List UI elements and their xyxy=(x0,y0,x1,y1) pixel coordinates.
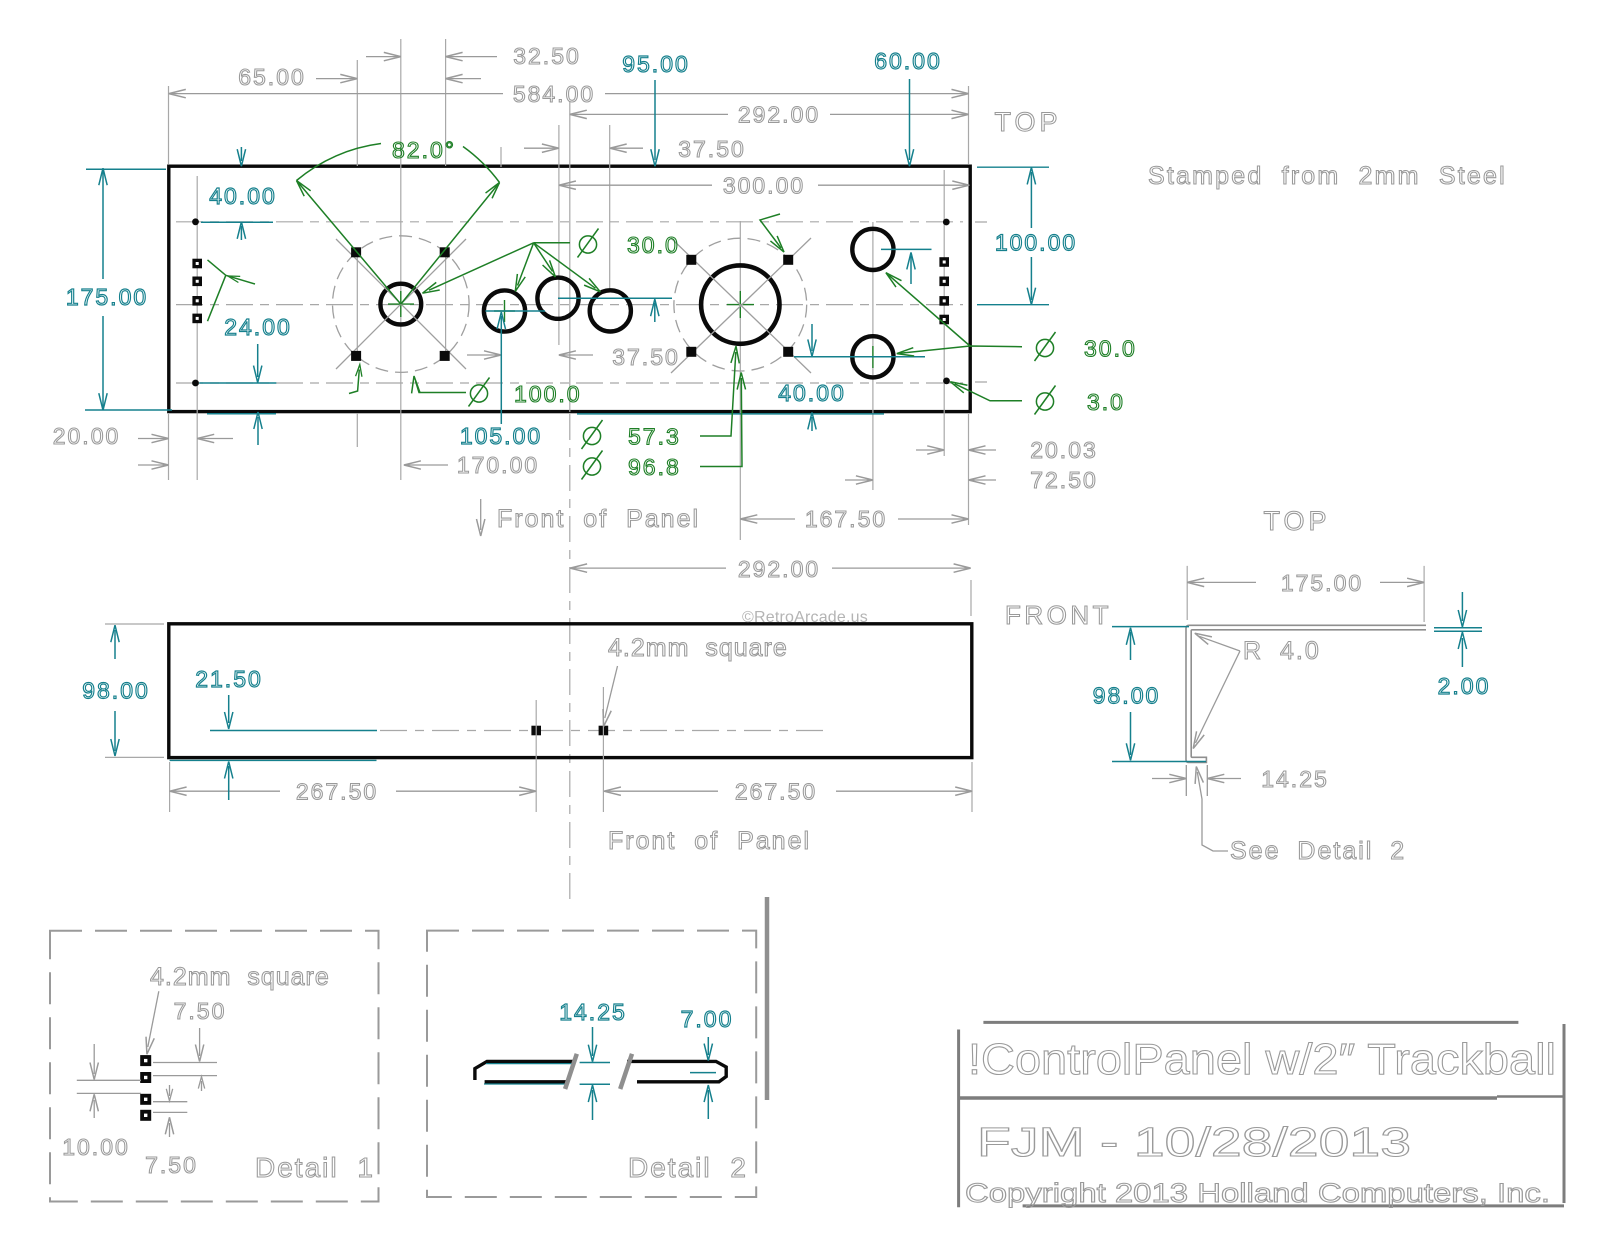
dim 175.00 xyxy=(66,168,148,410)
witness line x=872.9 right circles xyxy=(872,222,874,490)
svg-text:40.00: 40.00 xyxy=(778,380,846,406)
svg-text:24.00: 24.00 xyxy=(224,314,292,340)
teal extension line 40.00 lower boundary xyxy=(201,221,273,223)
left column square 2 xyxy=(192,277,202,287)
angle dim 82.0 deg legs xyxy=(293,137,502,304)
dim 267.50 left xyxy=(170,779,537,805)
right circle bottom green cross xyxy=(862,346,884,368)
svg-text:100.0: 100.0 xyxy=(514,381,582,407)
svg-text:See Detail 2: See Detail 2 xyxy=(1230,837,1406,865)
dim 65.00 xyxy=(238,64,481,90)
joystick square TL xyxy=(351,247,361,257)
dim 7.50 top xyxy=(174,998,227,1091)
teal extension lines for 175.00 at panel edges xyxy=(85,169,172,410)
dim 292.00 top xyxy=(570,102,969,128)
svg-text:98.00: 98.00 xyxy=(82,678,150,704)
witness line x=197.2 left square column xyxy=(196,176,198,480)
svg-text:14.25: 14.25 xyxy=(559,999,627,1025)
witness line right edge below x=968.5 xyxy=(968,86,970,525)
svg-text:R 4.0: R 4.0 xyxy=(1243,637,1321,665)
teal thickness extension lines 2.00 xyxy=(1434,628,1482,632)
svg-text:292.00: 292.00 xyxy=(738,102,820,128)
teal extension line right top circle xyxy=(881,248,932,250)
dim 292.00 front xyxy=(570,556,971,582)
left column square 3 xyxy=(192,296,202,306)
joystick diagonals xyxy=(336,239,466,369)
svg-text:100.00: 100.00 xyxy=(995,230,1077,256)
dim 2.00 xyxy=(1438,592,1491,699)
witness front view left edge below xyxy=(169,762,171,812)
dia 100.0 callout xyxy=(410,376,582,407)
svg-text:2.00: 2.00 xyxy=(1438,673,1491,699)
trackball square BL xyxy=(686,347,696,357)
dim 300.00 xyxy=(559,173,969,199)
trackball hole circle dia 57.3 xyxy=(701,265,779,343)
button1 green cross xyxy=(494,300,515,322)
svg-text:96.8: 96.8 xyxy=(628,454,681,480)
teal extension centerline left part xyxy=(210,730,377,732)
See Detail 1 note xyxy=(208,260,329,321)
teal extension of main centerline right of panel xyxy=(977,304,1049,306)
joystick square BL xyxy=(351,351,361,361)
title block top line xyxy=(983,1021,1518,1024)
detail1 squares xyxy=(140,1055,151,1121)
dim 32.50 xyxy=(366,43,581,69)
svg-text:292.00: 292.00 xyxy=(738,556,820,582)
svg-text:267.50: 267.50 xyxy=(735,779,817,805)
svg-text:72.50: 72.50 xyxy=(1030,467,1098,493)
detail2 teal underline left part xyxy=(484,1064,574,1084)
teal underline below bottom edge xyxy=(577,413,884,415)
svg-text:3.0: 3.0 xyxy=(1087,389,1125,415)
witness line x=740.3 trackball center xyxy=(739,221,741,540)
label Front of Panel (top) with down arrow xyxy=(477,499,701,536)
dim 14.25 profile xyxy=(1152,765,1329,796)
svg-text:60.00: 60.00 xyxy=(874,48,942,74)
dia 57.3 callout xyxy=(582,346,741,450)
detail2 section right part black xyxy=(627,1061,726,1081)
detail1 witness lines left of squares xyxy=(77,1080,141,1093)
svg-text:82.0°: 82.0° xyxy=(392,137,456,163)
svg-text:300.00: 300.00 xyxy=(723,173,805,199)
dim 37.50 upper xyxy=(524,136,746,162)
dim 105.00 xyxy=(460,312,542,449)
note See Detail 2 leader xyxy=(1192,766,1406,865)
dim 584.00 xyxy=(169,81,969,107)
dim 40.00 bottom middle xyxy=(778,324,846,431)
svg-text:14.25: 14.25 xyxy=(1261,766,1329,792)
dashed continuation of mid centerline below panel xyxy=(569,414,571,905)
svg-text:170.00: 170.00 xyxy=(457,452,539,478)
centerline main y=304.6 xyxy=(176,304,963,306)
teal extension lines 98 right xyxy=(1112,627,1206,762)
dim 20.00 xyxy=(53,423,233,449)
svg-text:Front of Panel: Front of Panel xyxy=(497,505,700,533)
note 4.2mm square (front) xyxy=(599,634,787,727)
dim 24.00 xyxy=(224,314,292,445)
witness line x=558.9 button2 xyxy=(558,125,560,345)
svg-text:FJM - 10/28/2013: FJM - 10/28/2013 xyxy=(977,1119,1411,1165)
witness line left edge x=168.5 xyxy=(168,86,170,480)
svg-text:TOP: TOP xyxy=(1263,506,1330,536)
angle dim 82.0 arc xyxy=(297,144,382,181)
teal extension at top right corner xyxy=(977,166,1049,168)
teal extension line lower row xyxy=(199,382,276,384)
dia 3.0 callout xyxy=(948,378,1125,415)
small hole dot top-right xyxy=(943,219,950,226)
small hole dot bottom-left xyxy=(192,380,199,387)
svg-text:20.03: 20.03 xyxy=(1030,437,1098,463)
witness below front square left xyxy=(535,700,537,812)
dim 175.00 xyxy=(1187,570,1424,596)
svg-text:65.00: 65.00 xyxy=(238,64,306,90)
svg-text:95.00: 95.00 xyxy=(622,51,690,77)
joystick square BR xyxy=(440,351,450,361)
dim 100.00 xyxy=(995,167,1077,304)
dim 21.50 xyxy=(195,666,263,800)
title block left line xyxy=(957,1030,960,1208)
witness front view right edge below and above xyxy=(971,580,972,812)
dim 37.50 lower xyxy=(467,344,680,370)
svg-text:175.00: 175.00 xyxy=(66,284,148,310)
svg-text:7.50: 7.50 xyxy=(174,998,227,1024)
svg-text:57.3: 57.3 xyxy=(628,424,681,450)
dia 96.8 callout xyxy=(582,372,746,480)
svg-text:7.00: 7.00 xyxy=(681,1006,734,1032)
svg-text:©RetroArcade.us: ©RetroArcade.us xyxy=(742,609,868,626)
svg-text:10.00: 10.00 xyxy=(62,1134,130,1160)
svg-text:21.50: 21.50 xyxy=(195,666,263,692)
dim 40.00 top left xyxy=(209,147,277,240)
front square left xyxy=(531,726,541,736)
title block bottom line xyxy=(1023,1204,1564,1207)
svg-text:Copyright 2013 Holland Compute: Copyright 2013 Holland Computers, Inc. xyxy=(965,1178,1550,1208)
svg-text:Detail 1: Detail 1 xyxy=(255,1152,375,1183)
dim 170.00 xyxy=(138,452,539,478)
detail1 witness lines right of squares xyxy=(153,1063,217,1113)
svg-text:Stamped from 2mm Steel: Stamped from 2mm Steel xyxy=(1148,162,1507,190)
title block divider xyxy=(959,1096,1497,1100)
centerline upper hole row y=221.8 xyxy=(176,221,987,223)
dim 14.25 detail2 xyxy=(559,999,627,1120)
svg-text:37.50: 37.50 xyxy=(678,136,746,162)
trackball square TR xyxy=(783,255,793,265)
dim 10.00 left xyxy=(62,1044,130,1160)
witness below front square right xyxy=(602,687,604,812)
right column square 2 xyxy=(939,277,949,287)
left column square 1 xyxy=(192,259,202,269)
panel outline front view xyxy=(169,624,972,758)
dia 30.0 callout right circles xyxy=(883,270,1137,362)
teal extension line button2 height xyxy=(558,297,672,299)
witness line x=357.3 xyxy=(356,60,358,447)
small hole dot top-left xyxy=(192,218,199,225)
dim 60.00 xyxy=(874,48,942,284)
svg-text:Detail 2: Detail 2 xyxy=(628,1152,748,1183)
svg-text:40.00: 40.00 xyxy=(209,183,277,209)
right circle bottom xyxy=(852,336,893,377)
detail 2 dashed border xyxy=(427,931,756,1197)
svg-text:!ControlPanel w/2″ Trackball: !ControlPanel w/2″ Trackball xyxy=(968,1035,1556,1084)
profile L-shape outline xyxy=(1186,625,1426,762)
dia 30.0 callout (buttons + joystick) xyxy=(421,229,680,298)
witness line x=501 xyxy=(500,147,502,167)
small hole dot bottom-right xyxy=(943,378,950,385)
dim 72.50 xyxy=(845,467,1098,493)
detail2 section left part black xyxy=(475,1061,575,1081)
note R 4.0 with leaders xyxy=(1189,629,1320,750)
joystick center cross green xyxy=(388,291,414,317)
svg-text:4.2mm square: 4.2mm square xyxy=(150,963,330,991)
trackball center cross green xyxy=(727,291,754,318)
button circle 3 xyxy=(590,290,631,331)
svg-text:32.50: 32.50 xyxy=(513,43,581,69)
svg-text:Front of Panel: Front of Panel xyxy=(608,827,811,855)
dim 7.50 bottom xyxy=(145,1085,198,1178)
left column square 4 xyxy=(192,314,202,324)
detail 1 dashed border xyxy=(50,931,379,1202)
dim 267.50 right xyxy=(604,779,972,805)
dim 20.03 xyxy=(916,437,1098,463)
svg-text:584.00: 584.00 xyxy=(513,81,595,107)
right circle top xyxy=(852,229,893,270)
front view centerline xyxy=(380,730,827,732)
trackball dashed circle dia 96.8 xyxy=(674,238,807,371)
detail2 break slashes xyxy=(565,1054,632,1089)
teal small piece below bottom edge xyxy=(207,413,276,415)
teal extension line button1 height xyxy=(485,310,545,312)
joystick dashed mounting circle xyxy=(333,236,470,373)
svg-text:20.00: 20.00 xyxy=(53,423,121,449)
witness centerline x=569.8 panel mid xyxy=(569,102,571,412)
dim 95.00 xyxy=(622,51,690,322)
witness line x=445.6 xyxy=(445,39,447,358)
button circle 1 xyxy=(484,290,525,331)
svg-text:98.00: 98.00 xyxy=(1093,683,1161,709)
svg-text:7.50: 7.50 xyxy=(145,1152,198,1178)
dim 98.00 profile xyxy=(1093,628,1161,761)
4.25mm Square note xyxy=(239,364,363,402)
right column square 3 xyxy=(939,296,949,306)
centerline lower hole row y=383 xyxy=(176,382,987,383)
svg-text:30.0: 30.0 xyxy=(1084,336,1137,362)
profile witness lines 175 xyxy=(1187,566,1424,622)
svg-text:175.00: 175.00 xyxy=(1281,570,1363,596)
trackball square BR xyxy=(783,347,793,357)
svg-text:FRONT: FRONT xyxy=(1005,600,1112,630)
svg-text:37.50: 37.50 xyxy=(612,344,680,370)
dim 167.50 xyxy=(740,506,968,532)
svg-text:105.00: 105.00 xyxy=(460,423,542,449)
note 4.2mm square (detail 1) xyxy=(143,963,330,1055)
trackball diagonals xyxy=(671,238,811,373)
svg-text:267.50: 267.50 xyxy=(296,779,378,805)
svg-text:TOP: TOP xyxy=(994,107,1061,137)
joystick hole circle xyxy=(380,284,421,325)
vertical gray bar right of detail2 xyxy=(765,897,770,1100)
button circle 2 xyxy=(537,278,578,319)
witness line x=609.7 button3 xyxy=(609,125,611,292)
6mm Square note xyxy=(760,204,883,255)
panel outline top view xyxy=(169,166,970,411)
dim 7.00 detail2 xyxy=(681,1006,734,1119)
front square right xyxy=(599,726,609,736)
dim 98.00 front left xyxy=(82,625,150,756)
svg-text:4.2mm square: 4.2mm square xyxy=(608,634,788,662)
right column square 1 xyxy=(939,257,949,267)
title block right line xyxy=(1563,1024,1566,1203)
teal extension line right bottom circle xyxy=(794,356,925,358)
trackball square TL xyxy=(686,255,696,265)
witness line x=944.2 right square column xyxy=(943,170,945,456)
witness line x=400.8 joystick center xyxy=(400,39,402,480)
svg-text:167.50: 167.50 xyxy=(805,506,887,532)
witness front view left edge extensions left xyxy=(105,624,164,757)
joystick square TR xyxy=(440,247,450,257)
svg-text:30.0: 30.0 xyxy=(627,232,680,258)
teal extension under bottom edge xyxy=(170,759,377,761)
right column square 4 xyxy=(939,315,949,325)
